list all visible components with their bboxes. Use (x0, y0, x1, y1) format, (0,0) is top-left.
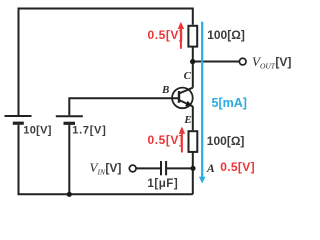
svg-text:C: C (184, 70, 192, 82)
svg-text:0.5[V]: 0.5[V] (148, 133, 184, 147)
capacitor C1 right plate (165, 161, 167, 175)
wire node to collector lead (192, 62, 194, 88)
terminal VOUT open circle (239, 58, 246, 65)
wire left rail lower + bottom rail (19, 125, 193, 195)
node A junction dot (190, 166, 195, 171)
svg-text:A: A (206, 163, 215, 175)
voltage arrow R2 red line (181, 132, 183, 153)
svg-text:VIN[V]: VIN[V] (90, 160, 122, 177)
transistor Q1 circle (172, 88, 193, 109)
resistor R1 100 ohm (top) (188, 26, 197, 47)
resistor R2 100 ohm (bottom) (189, 131, 198, 152)
transistor Q1 collector diagonal (179, 88, 193, 94)
battery V1 long plate (5, 115, 32, 117)
svg-text:10[V]: 10[V] (23, 125, 51, 137)
battery V2 long plate (56, 115, 83, 117)
voltage arrow R1 red line (180, 27, 182, 49)
terminal VIN open circle (129, 165, 136, 172)
battery V2 short plate (64, 122, 76, 125)
wire R1 bottom to collector node (192, 47, 194, 62)
current arrow 5mA blue line (201, 22, 203, 178)
svg-text:0.5[V]: 0.5[V] (148, 28, 184, 42)
svg-text:B: B (161, 84, 169, 96)
wire emitter lead down (192, 106, 194, 130)
capacitor C1 left plate (160, 161, 162, 175)
node bottom-rail junction dot (67, 192, 72, 197)
node collector junction dot (190, 59, 195, 64)
svg-text:5[mA]: 5[mA] (212, 96, 247, 110)
voltage arrow R1 red head (178, 22, 184, 29)
current arrow 5mA blue head (199, 177, 206, 184)
wire Vin to capacitor (136, 167, 160, 169)
wire capacitor to node A (167, 167, 193, 169)
transistor Q1 emitter diagonal (179, 100, 193, 106)
svg-text:1.7[V]: 1.7[V] (72, 125, 106, 137)
svg-text:0.5[V]: 0.5[V] (220, 160, 255, 174)
svg-text:100[Ω]: 100[Ω] (207, 134, 245, 148)
svg-text:100[Ω]: 100[Ω] (207, 28, 245, 42)
wire battery V2 bottom stub (68, 125, 70, 194)
transistor Q1 base bar (178, 91, 180, 103)
wire battery V2 stub top + base wire to transistor (69, 98, 179, 115)
wire left rail upper + top rail + right drop to R1 (19, 9, 193, 116)
svg-text:1[μF]: 1[μF] (147, 178, 178, 190)
wire R2 bottom to node A and down to bottom rail (192, 152, 194, 194)
wire Vout tap (193, 61, 240, 63)
battery V1 short plate (13, 122, 24, 125)
transistor Q1 emitter arrowhead (185, 101, 192, 106)
svg-text:E: E (183, 114, 191, 126)
voltage arrow R2 red head (179, 127, 185, 134)
